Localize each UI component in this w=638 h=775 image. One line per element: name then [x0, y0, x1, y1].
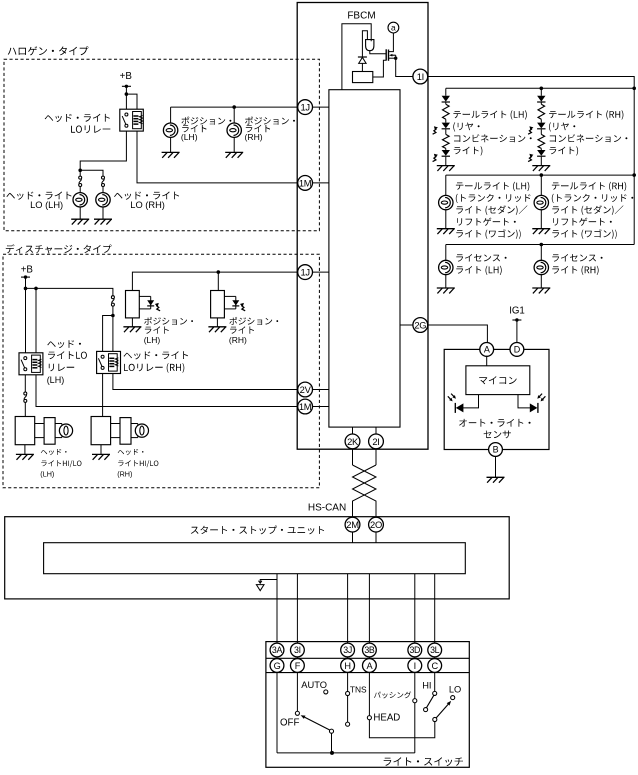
label trunk RH l1	[552, 182, 626, 191]
pin H light switch	[341, 659, 355, 673]
ground LH position lamp	[162, 151, 180, 153]
wire trunk RH ground	[540, 210, 542, 229]
pin I light switch	[408, 659, 422, 673]
connector RH headlight LO	[102, 176, 105, 179]
wire col C down	[434, 643, 436, 691]
wire connector to LH lamp	[79, 186, 81, 192]
LED chain taillight RH	[540, 88, 542, 96]
wire LH position to ground	[170, 137, 172, 152]
wire fuse to MOSFET gate	[370, 51, 386, 54]
svg-text:3A: 3A	[272, 645, 283, 655]
lamp license LH	[439, 260, 453, 274]
svg-text:B: B	[493, 445, 499, 455]
svg-text:2K: 2K	[347, 436, 359, 447]
lamp position RH (halogen)	[227, 123, 241, 137]
label disch position RH l2	[230, 326, 254, 333]
photodiode right	[530, 403, 538, 412]
light arrows into right photodiode	[542, 396, 545, 400]
label HID RH l2	[118, 460, 158, 467]
relay K2 label l2	[48, 351, 87, 359]
FBCM module U1 outer box	[297, 3, 428, 450]
wire 1J to block	[313, 106, 329, 108]
label disch position RH l1	[229, 317, 278, 325]
wire tail row1	[446, 87, 634, 89]
wire to K2 coil	[35, 288, 37, 352]
wire unit to switch col 3B	[368, 574, 370, 643]
svg-text:F: F	[295, 661, 301, 671]
photodiode right bracket	[518, 395, 530, 408]
label headlight LO RH line1	[114, 192, 179, 200]
arm LO with arrow	[436, 704, 448, 718]
contact TNS lower	[346, 722, 350, 726]
LED chain taillight LH	[445, 88, 447, 96]
svg-text:LO: LO	[449, 684, 461, 694]
wire 1I bus right vertical	[428, 77, 635, 245]
wire 2O into unit	[375, 532, 377, 543]
svg-text:FBCM: FBCM	[347, 11, 375, 22]
svg-text:TNS: TNS	[350, 685, 367, 695]
wire K3 contact to RH unit	[102, 374, 104, 417]
wire 2I down	[375, 449, 377, 465]
lamp headlight LO LH	[73, 193, 87, 207]
pin 3D light switch	[408, 643, 422, 657]
svg-text:OFF: OFF	[280, 718, 299, 729]
pin 3I light switch	[291, 643, 305, 657]
light switch name label	[384, 757, 463, 766]
label license RH l2	[552, 266, 598, 275]
wire 1M to block	[313, 182, 329, 184]
svg-text:1M: 1M	[299, 401, 312, 412]
wire +B rail	[26, 288, 113, 295]
wire LH lamp to ground	[79, 207, 81, 219]
halogen type label	[8, 46, 89, 55]
svg-text:1I: 1I	[417, 71, 424, 82]
wire +B to relay coil	[126, 94, 137, 109]
twisted pair HS-CAN a	[353, 465, 377, 517]
label trunk LH l3	[456, 205, 527, 215]
transistor Q1 gate bar	[385, 49, 387, 60]
label tail RH l2	[549, 122, 575, 131]
wire 1J lower to block	[313, 271, 329, 273]
svg-text:AUTO: AUTO	[301, 680, 327, 690]
svg-text:3L: 3L	[430, 645, 440, 655]
wire connector to LH unit	[24, 402, 26, 416]
label license RH l1	[552, 254, 602, 262]
label trunk RH l3	[552, 205, 623, 215]
relay K3 label l2	[124, 363, 184, 373]
label trunk LH l5	[456, 229, 520, 239]
svg-text:(RH): (RH)	[117, 469, 132, 478]
pin A sensor	[480, 343, 494, 357]
wire 1M lower to block	[313, 406, 329, 408]
pin 2K	[345, 434, 360, 449]
wire connector to split	[112, 306, 114, 316]
wire connector to RH lamp	[102, 186, 104, 192]
contact HI pivot	[424, 708, 428, 712]
wire tail row2	[446, 174, 634, 176]
wire Q1 drain	[389, 33, 394, 52]
wire riser trunk lamp RH	[540, 175, 542, 195]
connector LH headlight LO	[79, 176, 82, 179]
svg-text:(LH): (LH)	[47, 375, 65, 385]
microcomputer label	[479, 376, 516, 384]
wire col A down	[368, 643, 370, 716]
svg-text:D: D	[514, 345, 521, 355]
svg-text:3B: 3B	[364, 645, 375, 655]
fuse F1 (sensor cup)	[366, 40, 374, 51]
wire RH lamp to ground	[102, 207, 104, 219]
svg-text:C: C	[432, 661, 439, 671]
ground RH headlight LO	[94, 218, 112, 220]
lamp license RH	[534, 260, 548, 274]
svg-text:2G: 2G	[414, 319, 426, 330]
pin 3A light switch	[270, 643, 284, 657]
wire riser RH position unit	[217, 272, 219, 290]
power +B (discharge) terminal	[21, 276, 30, 278]
contact rotary pivot	[329, 729, 333, 733]
position lamp unit RH (discharge)	[211, 291, 225, 318]
wire Q1 source	[389, 57, 396, 59]
diode D1 cathode bar	[358, 56, 367, 58]
wire K2 coil to 1M	[36, 375, 298, 407]
FBCM internal main block	[329, 90, 400, 427]
arm HI	[426, 695, 434, 708]
label position LH l1	[181, 117, 231, 125]
svg-text:IG1: IG1	[509, 306, 525, 317]
power +B (halogen) terminal	[122, 85, 131, 87]
junction RH position tap	[232, 105, 236, 109]
label trunk RH l5	[552, 229, 616, 239]
svg-text:I: I	[414, 661, 416, 671]
svg-text:1J: 1J	[300, 267, 309, 278]
contact LO pivot	[433, 717, 437, 721]
wire riser LH position lamp	[170, 107, 172, 123]
twisted pair HS-CAN b	[353, 465, 377, 517]
svg-text:3D: 3D	[409, 645, 420, 655]
label tail LH l4	[454, 146, 483, 155]
label position RH l2	[246, 125, 270, 132]
pin 3L light switch	[428, 643, 442, 657]
pin B sensor	[489, 443, 503, 457]
pin 2O	[369, 517, 384, 532]
junction row1 RH tap	[540, 87, 544, 91]
wire A to microcomputer	[486, 356, 488, 366]
svg-text:H: H	[344, 661, 350, 671]
wire Q1 body arrow	[392, 54, 396, 56]
wire riser license LH	[445, 245, 447, 261]
wire K1 contact output	[80, 131, 126, 176]
halogen type dashed enclosure	[4, 59, 319, 231]
wire 2G to pin A	[428, 325, 488, 343]
pin 3B light switch	[363, 643, 377, 657]
wire jog to diode branch	[362, 31, 367, 57]
auto light sensor label l1	[459, 419, 530, 427]
light arrows into left photodiode	[448, 396, 451, 400]
svg-text:1J: 1J	[300, 102, 309, 113]
start-stop unit label	[191, 526, 324, 535]
svg-text:2I: 2I	[372, 436, 379, 447]
wire unit to switch col 3D	[414, 574, 416, 643]
auto light sensor box	[444, 349, 549, 449]
label license LH l1	[456, 254, 506, 262]
auto light sensor label l2	[484, 431, 511, 439]
contact OFF	[295, 711, 299, 715]
svg-text:+B: +B	[21, 264, 34, 275]
svg-text:3J: 3J	[343, 645, 352, 655]
svg-text:G: G	[274, 661, 281, 671]
ground RH position lamp	[225, 151, 243, 153]
pin 1J lower	[298, 265, 313, 280]
wire diode to control block	[361, 63, 363, 71]
label tail LH l3	[454, 134, 532, 142]
lamp trunk-lid LH	[439, 195, 453, 209]
pin 3J light switch	[341, 643, 355, 657]
wire license LH ground	[445, 275, 447, 288]
svg-text:A: A	[484, 345, 490, 355]
wire col F down	[296, 643, 298, 711]
junction RH discharge position tap	[217, 270, 221, 274]
ground arrow in unit	[259, 581, 262, 584]
label tail LH l1	[453, 110, 526, 119]
label tail RH l4	[550, 146, 579, 155]
wire control block to MOSFET source	[373, 60, 386, 77]
wire unit to switch col 3I	[296, 574, 298, 643]
junction +B branch	[125, 92, 129, 96]
discharge type dashed enclosure	[3, 254, 319, 487]
label position RH l1	[245, 117, 295, 125]
wire branch to RH lamp	[80, 170, 103, 176]
discharge type label	[6, 244, 112, 253]
wire unit to switch col 3L	[434, 574, 436, 643]
transistor Q1 channel bar	[388, 50, 390, 61]
power IG1 terminal	[512, 319, 521, 321]
relay K2 headlight LO relay LH	[19, 353, 43, 375]
junction K2 coil branch	[34, 287, 38, 291]
svg-text:2V: 2V	[300, 384, 312, 395]
contact LO	[451, 696, 455, 700]
junction row2 right bus	[632, 173, 636, 177]
terminal a circle	[388, 22, 399, 33]
svg-text:LO (RH): LO (RH)	[130, 200, 165, 210]
wire riser trunk lamp LH	[445, 175, 447, 195]
wire rotary pivot to common	[331, 733, 333, 753]
ground trunk RH	[532, 228, 550, 230]
label passing	[374, 691, 411, 698]
relay K1 label line1	[45, 114, 110, 122]
photodiode left bracket	[463, 395, 479, 408]
svg-text:HS-CAN: HS-CAN	[308, 503, 346, 514]
pin 1M lower	[298, 399, 313, 414]
svg-text:2M: 2M	[346, 519, 359, 530]
ground license RH	[532, 287, 550, 289]
svg-text:(RH): (RH)	[229, 335, 247, 345]
label position LH l2	[182, 125, 206, 132]
svg-text:3I: 3I	[294, 645, 301, 655]
wire discharge position lamps to 1J	[132, 272, 297, 290]
label trunk LH l4	[457, 218, 516, 226]
svg-text:a: a	[391, 23, 396, 33]
junction Q1 source node	[394, 57, 397, 60]
lamp trunk-lid RH	[534, 195, 548, 209]
svg-text:LO (LH): LO (LH)	[30, 200, 63, 210]
contact passing	[413, 699, 417, 703]
svg-text:(LH): (LH)	[40, 469, 54, 478]
label disch position LH l2	[145, 326, 169, 333]
junction +B rail left	[24, 287, 28, 291]
junction row2 RH tap	[540, 173, 544, 177]
start-stop unit outer box	[5, 517, 510, 599]
pin 2M	[345, 517, 360, 532]
label disch position LH l1	[144, 317, 193, 325]
label trunk RH l2	[552, 194, 634, 203]
headlight HI/LO unit LH	[15, 417, 35, 445]
junction headlight LO split	[78, 169, 82, 173]
pin C light switch	[428, 659, 442, 673]
wire col H contact segment	[347, 696, 349, 723]
pin 2G	[413, 318, 428, 333]
control block (driver)	[353, 72, 373, 83]
wire K3 coil to 2V	[113, 374, 298, 390]
svg-text:(LH): (LH)	[181, 132, 198, 142]
wire col G down	[276, 643, 278, 753]
headlight HI/LO unit RH	[91, 417, 111, 445]
label tail RH l3	[550, 134, 628, 142]
wire unit to switch col 3J	[347, 574, 349, 643]
label tail RH l1	[549, 110, 623, 119]
pin A light switch	[363, 659, 377, 673]
wire B to ground	[495, 456, 497, 477]
label HID LH l1	[41, 449, 67, 455]
connector LH HID feed	[24, 392, 27, 395]
contact HI	[433, 691, 437, 695]
wire IG1 to pin D	[516, 320, 518, 343]
svg-text:(LH): (LH)	[144, 335, 161, 345]
position lamp unit LH (discharge)	[126, 291, 140, 318]
svg-text:(RH): (RH)	[245, 132, 263, 142]
wire to K3 coil	[112, 316, 114, 352]
wire RH position to ground	[233, 137, 235, 152]
wire 2M into unit	[352, 532, 354, 543]
wire K1 coil to 1M	[137, 131, 298, 183]
ground license LH	[437, 287, 455, 289]
wire +B down	[25, 277, 27, 353]
pin 2I	[369, 434, 384, 449]
junction row3 RH tap	[540, 243, 544, 247]
relay K3 label l1	[124, 351, 188, 359]
wire block to 2G	[400, 324, 413, 326]
relay K1 label line2	[71, 125, 110, 133]
lamp position LH (halogen)	[163, 123, 177, 137]
pin 1I	[413, 69, 428, 84]
label HID LH l2	[41, 460, 81, 467]
start-stop unit inner block	[44, 543, 466, 574]
wire Q1 source to pin 1I	[396, 58, 413, 76]
svg-text:2O: 2O	[370, 519, 382, 530]
junction row1 right bus	[632, 87, 636, 91]
wire 2K down	[352, 449, 354, 465]
relay K3 headlight LO relay RH	[97, 351, 121, 373]
junction K3 split	[111, 314, 115, 318]
lamp headlight LO RH	[96, 193, 110, 207]
wire col A loop to LO pivot	[369, 720, 434, 738]
light switch header line2	[266, 672, 469, 674]
wire switch common bottom	[277, 752, 415, 754]
pin 1M upper	[298, 176, 313, 191]
rotary arm toward OFF	[305, 717, 330, 730]
light switch header line1	[266, 657, 469, 659]
wire riser license RH	[540, 245, 542, 261]
wire unit to switch col 3A	[276, 574, 278, 643]
ground trunk LH	[437, 228, 455, 230]
label trunk RH l4	[553, 218, 612, 226]
pin 2V	[298, 382, 313, 397]
contact HEAD	[367, 716, 371, 720]
contact AUTO	[324, 690, 328, 694]
ground sensor B	[487, 476, 505, 478]
label HID RH l1	[118, 449, 144, 455]
pin 1J upper	[298, 100, 313, 115]
wire riser RH position lamp	[233, 107, 235, 123]
wire +B to relay contact	[125, 86, 127, 109]
wire position lamps to 1J	[171, 106, 298, 108]
wire to K3 contact	[103, 316, 113, 352]
wire ground branch in unit	[260, 580, 277, 583]
wire 2V to block	[313, 389, 329, 391]
wire K2 contact output	[24, 375, 26, 392]
wire tail row3	[446, 244, 634, 246]
wire trunk LH ground	[445, 210, 447, 229]
wire license RH ground	[540, 275, 542, 288]
pin G light switch	[270, 659, 284, 673]
light switch box	[266, 642, 469, 768]
pin D sensor	[510, 343, 524, 357]
label license LH l2	[456, 266, 501, 275]
connector RH relay feed	[111, 296, 114, 299]
label headlight LO LH line1	[6, 192, 71, 200]
wire FBCM internal supply	[342, 24, 371, 90]
wire col I lower segment	[414, 703, 416, 753]
ground LH headlight LO	[71, 218, 89, 220]
wire 2I to block	[375, 427, 377, 434]
relay K1 headlight LO relay	[120, 109, 144, 131]
label tail LH l2	[453, 122, 479, 131]
wire col H down	[347, 643, 349, 691]
label trunk LH l1	[456, 182, 529, 191]
svg-text:+B: +B	[120, 71, 133, 82]
svg-text:HI: HI	[422, 681, 431, 691]
wire col I down	[414, 643, 416, 699]
svg-text:1M: 1M	[299, 177, 312, 188]
label trunk LH l2	[456, 194, 538, 203]
relay K2 label l1	[47, 340, 81, 348]
photodiode left	[456, 403, 464, 412]
junction rotary common	[330, 751, 334, 755]
wire 2K to block	[352, 427, 354, 434]
svg-text:HEAD: HEAD	[373, 713, 400, 724]
microcomputer box	[466, 366, 530, 395]
diode D1	[359, 57, 366, 63]
relay K2 label l3	[49, 364, 74, 372]
pin F light switch	[291, 659, 305, 673]
contact TNS	[346, 691, 350, 695]
